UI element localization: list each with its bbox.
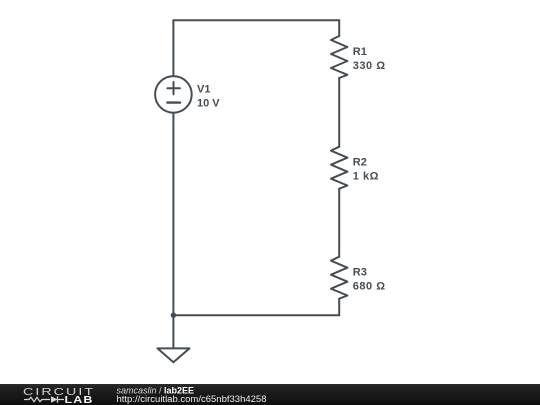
wire left upper vertical [172, 20, 174, 76]
node junction dot [171, 313, 176, 318]
resistor R1 [331, 36, 347, 78]
wire right lower vertical [338, 299, 340, 316]
svg-text:R3: R3 [353, 267, 367, 279]
wire right mid1 vertical [338, 78, 340, 147]
svg-text:LAB: LAB [65, 395, 94, 405]
wire right upper vertical [338, 20, 340, 36]
svg-text:1 kΩ: 1 kΩ [353, 171, 379, 183]
svg-text:10 V: 10 V [197, 98, 220, 110]
svg-text:R1: R1 [353, 46, 367, 58]
voltage source V1 [155, 76, 192, 113]
wire bottom horizontal [173, 314, 339, 316]
svg-text:V1: V1 [197, 84, 210, 96]
svg-text:330 Ω: 330 Ω [353, 60, 386, 72]
resistor R2 [331, 147, 347, 189]
ground [158, 348, 190, 362]
footer bar [0, 384, 540, 405]
logo resistor squiggle [24, 398, 50, 402]
circuitlab logo [0, 384, 540, 405]
wire left lower vertical [172, 113, 174, 348]
wire right mid2 vertical [338, 189, 340, 257]
svg-text:680 Ω: 680 Ω [353, 281, 386, 293]
logo diode [51, 397, 58, 403]
svg-text:R2: R2 [353, 157, 367, 169]
svg-text:http://circuitlab.com/c65nbf33: http://circuitlab.com/c65nbf33h4258 [117, 394, 267, 405]
wire top horizontal [173, 19, 339, 21]
resistor R3 [331, 257, 347, 299]
